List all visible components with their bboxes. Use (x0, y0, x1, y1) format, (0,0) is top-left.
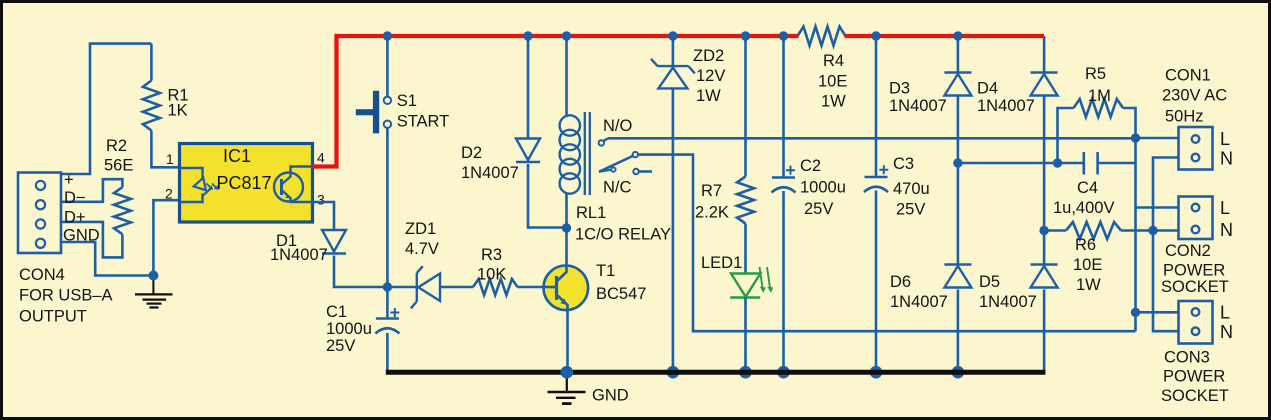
svg-text:N/C: N/C (603, 179, 632, 197)
svg-text:2: 2 (165, 186, 173, 202)
svg-text:CON1: CON1 (1165, 67, 1211, 85)
svg-text:1M: 1M (1088, 87, 1111, 105)
svg-text:L: L (1220, 303, 1230, 323)
svg-text:POWER: POWER (1163, 368, 1225, 386)
svg-text:R2: R2 (106, 137, 127, 155)
svg-text:POWER: POWER (1163, 262, 1225, 280)
svg-text:SOCKET: SOCKET (1161, 278, 1229, 296)
svg-text:IC1: IC1 (223, 146, 251, 166)
svg-text:1N4007: 1N4007 (979, 293, 1037, 311)
svg-text:PC817: PC817 (216, 173, 271, 193)
svg-text:CON4: CON4 (19, 266, 65, 284)
svg-text:1: 1 (166, 151, 174, 167)
svg-text:4: 4 (317, 150, 325, 166)
svg-text:25V: 25V (326, 337, 355, 355)
svg-text:CON2: CON2 (1165, 242, 1211, 260)
svg-text:D−: D− (64, 189, 86, 207)
svg-text:N: N (1220, 322, 1233, 342)
svg-text:4.7V: 4.7V (405, 240, 439, 258)
svg-text:SOCKET: SOCKET (1161, 387, 1229, 405)
svg-text:1N4007: 1N4007 (270, 246, 328, 264)
svg-text:50Hz: 50Hz (1165, 108, 1204, 126)
svg-text:D4: D4 (977, 80, 998, 98)
svg-text:1N4007: 1N4007 (890, 293, 948, 311)
svg-text:N/O: N/O (603, 117, 633, 135)
svg-text:1W: 1W (821, 93, 846, 111)
svg-text:25V: 25V (896, 201, 925, 219)
svg-text:56E: 56E (104, 157, 133, 175)
svg-text:10E: 10E (818, 73, 847, 91)
svg-text:25V: 25V (804, 200, 833, 218)
svg-text:10K: 10K (477, 266, 506, 284)
svg-text:1K: 1K (168, 102, 188, 120)
svg-text:1W: 1W (696, 87, 721, 105)
svg-text:+: + (64, 171, 74, 189)
svg-text:C2: C2 (800, 157, 821, 175)
svg-text:N: N (1220, 149, 1233, 169)
svg-text:230V AC: 230V AC (1162, 87, 1227, 105)
svg-text:L: L (1220, 198, 1230, 218)
svg-text:1W: 1W (1076, 276, 1101, 294)
svg-text:R5: R5 (1085, 65, 1106, 83)
svg-text:OUTPUT: OUTPUT (19, 308, 87, 326)
svg-text:RL1: RL1 (576, 204, 606, 222)
svg-text:D+: D+ (64, 209, 86, 227)
svg-text:FOR USB–A: FOR USB–A (19, 287, 113, 305)
svg-text:R4: R4 (823, 52, 844, 70)
svg-text:BC547: BC547 (596, 285, 646, 303)
svg-text:3: 3 (317, 192, 325, 208)
svg-text:L: L (1220, 129, 1230, 149)
svg-text:D6: D6 (890, 273, 911, 291)
svg-text:D5: D5 (979, 273, 1000, 291)
svg-text:GND: GND (63, 227, 100, 245)
svg-text:LED1: LED1 (701, 254, 742, 272)
svg-text:1000u: 1000u (800, 179, 846, 197)
svg-text:1u,400V: 1u,400V (1053, 199, 1114, 217)
svg-text:1N4007: 1N4007 (461, 164, 519, 182)
svg-text:D2: D2 (461, 144, 482, 162)
svg-text:1N4007: 1N4007 (977, 97, 1035, 115)
svg-text:GND: GND (592, 387, 629, 405)
svg-text:C4: C4 (1077, 179, 1098, 197)
svg-text:R7: R7 (701, 182, 722, 200)
svg-text:1C/O RELAY: 1C/O RELAY (575, 226, 671, 244)
svg-text:12V: 12V (696, 67, 725, 85)
svg-text:10E: 10E (1073, 256, 1102, 274)
svg-text:2.2K: 2.2K (695, 204, 729, 222)
svg-text:T1: T1 (596, 262, 615, 280)
svg-text:R6: R6 (1075, 236, 1096, 254)
svg-text:1000u: 1000u (326, 320, 372, 338)
svg-text:D3: D3 (889, 80, 910, 98)
svg-text:ZD2: ZD2 (693, 47, 724, 65)
svg-text:S1: S1 (397, 92, 417, 110)
svg-text:N: N (1220, 220, 1233, 240)
svg-text:START: START (397, 113, 450, 131)
svg-text:CON3: CON3 (1164, 349, 1210, 367)
svg-text:C3: C3 (893, 155, 914, 173)
svg-text:R3: R3 (481, 246, 502, 264)
svg-text:ZD1: ZD1 (405, 220, 436, 238)
svg-text:470u: 470u (893, 180, 930, 198)
svg-text:C1: C1 (326, 303, 347, 321)
svg-text:1N4007: 1N4007 (889, 97, 947, 115)
